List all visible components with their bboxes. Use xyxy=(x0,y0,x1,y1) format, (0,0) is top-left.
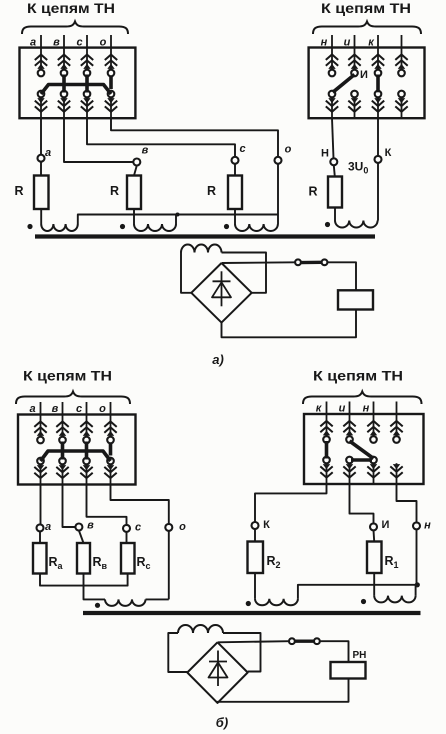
svg-text:И: И xyxy=(360,69,368,81)
svg-text:а: а xyxy=(45,521,51,533)
svg-text:с: с xyxy=(76,37,82,49)
svg-text:а: а xyxy=(29,403,35,415)
svg-text:К цепям ТН: К цепям ТН xyxy=(321,1,411,16)
svg-text:о: о xyxy=(100,37,107,49)
svg-text:о: о xyxy=(285,144,292,156)
svg-text:с: с xyxy=(135,522,141,534)
svg-text:в: в xyxy=(52,403,59,415)
svg-text:с: с xyxy=(239,143,245,155)
svg-text:R: R xyxy=(207,184,216,198)
svg-text:Н: Н xyxy=(321,148,329,160)
svg-text:а: а xyxy=(30,37,36,49)
svg-text:в: в xyxy=(142,145,149,157)
svg-text:н: н xyxy=(363,403,370,415)
svg-text:К цепям ТН: К цепям ТН xyxy=(23,369,112,384)
svg-text:И: И xyxy=(382,519,390,531)
svg-text:а): а) xyxy=(212,352,224,367)
svg-text:о: о xyxy=(99,403,106,415)
svg-text:о: о xyxy=(179,521,186,533)
svg-text:а: а xyxy=(45,147,51,159)
svg-text:н: н xyxy=(321,37,328,49)
svg-text:в: в xyxy=(87,520,94,532)
svg-text:К цепям ТН: К цепям ТН xyxy=(27,1,115,16)
svg-text:R: R xyxy=(308,185,317,199)
svg-text:R: R xyxy=(110,184,119,198)
svg-text:и: и xyxy=(339,403,346,415)
svg-text:б): б) xyxy=(216,715,228,730)
svg-text:в: в xyxy=(53,37,60,49)
svg-text:К: К xyxy=(263,519,270,531)
svg-text:н: н xyxy=(424,520,431,532)
svg-text:К: К xyxy=(385,147,392,159)
svg-text:и: и xyxy=(344,37,351,49)
svg-text:с: с xyxy=(76,403,82,415)
svg-text:К цепям ТН: К цепям ТН xyxy=(313,369,403,384)
svg-text:РН: РН xyxy=(353,650,367,661)
svg-text:R: R xyxy=(14,184,23,198)
